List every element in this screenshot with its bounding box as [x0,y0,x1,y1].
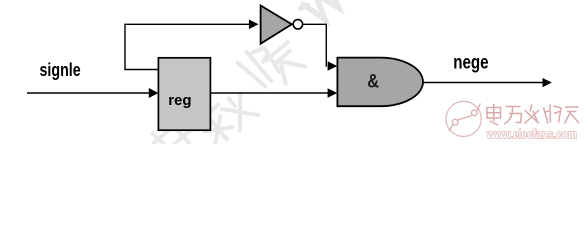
wire: inverter output down to and gate [303,24,327,66]
svg-text:signle: signle [40,59,81,80]
svg-text:nege: nege [453,53,488,74]
wire: reg output to and gate lower input [210,92,328,94]
inverter bubble [293,20,302,29]
wire: feedback from reg left side up and right to inverter [125,24,249,69]
arrowhead output [543,78,552,87]
svg-text:&: & [367,70,379,92]
and gate U2 [337,58,423,107]
wire: and gate output [423,82,544,84]
arrowhead into reg [149,88,159,98]
elecfans embossed watermark chinese characters [487,104,579,125]
arrowhead into inverter [249,20,259,30]
svg-text:reg: reg [168,92,191,109]
arrowhead into and gate top input [328,61,338,70]
elecfans embossed watermark logo [446,101,481,136]
svg-text:www.elecfans.com: www.elecfans.com [486,128,577,142]
diagonal forum watermark (faint) [147,0,345,160]
wire: input line into reg [27,92,150,94]
register box reg [158,58,210,130]
arrowhead into and gate lower input [328,88,338,97]
inverter U1 triangle [261,6,292,44]
